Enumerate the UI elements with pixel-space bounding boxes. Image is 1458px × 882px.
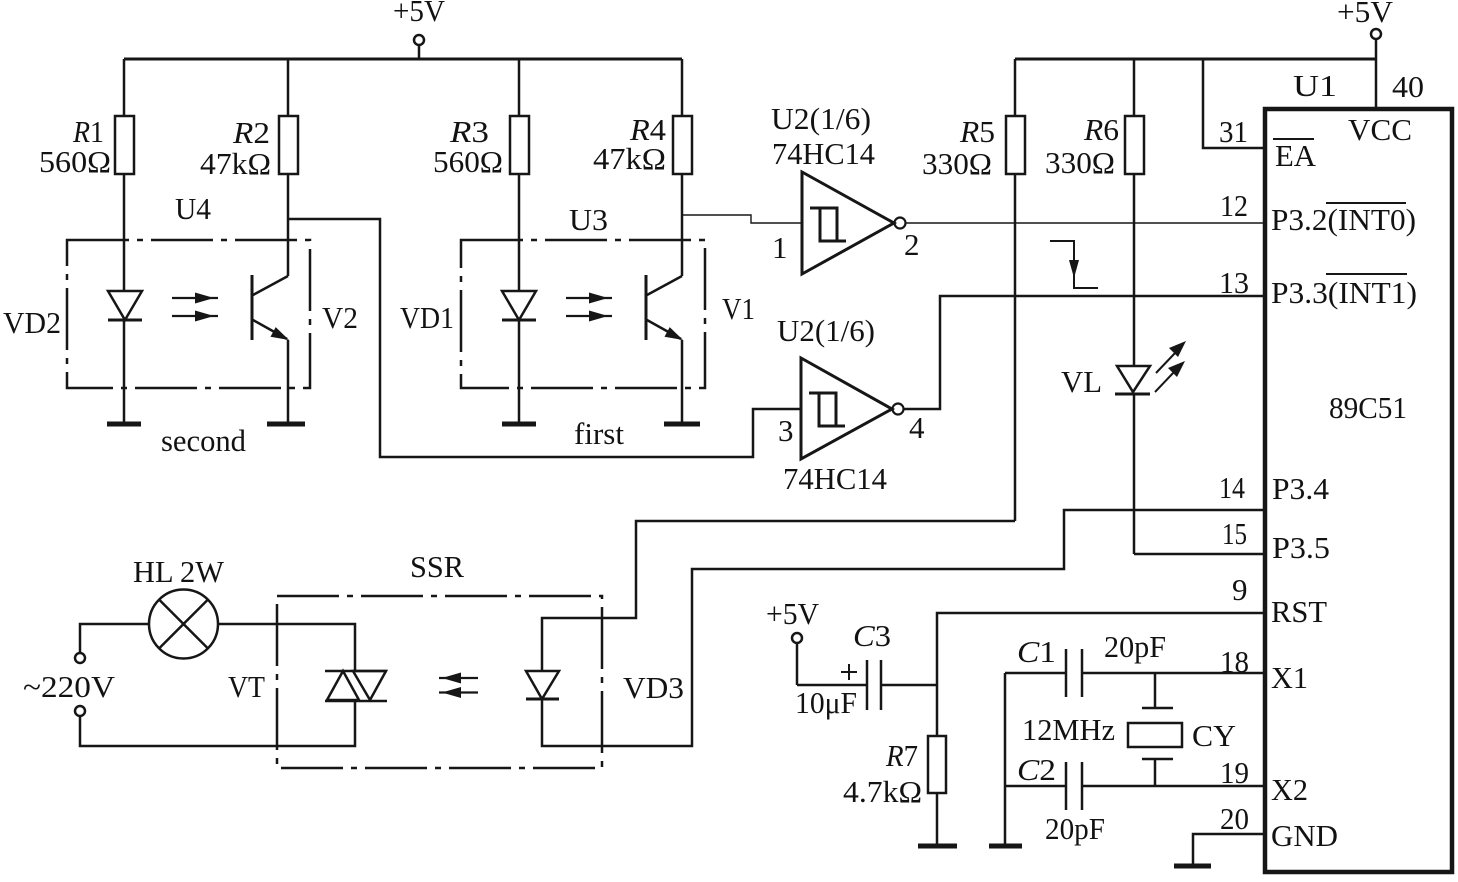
wire source to lamp <box>80 624 149 653</box>
svg-text:U2(1/6): U2(1/6) <box>771 101 871 136</box>
wire left +5V rail <box>124 58 682 61</box>
inverter U2a 74HC14 <box>771 101 906 274</box>
node +5V (left supply terminal) <box>393 0 446 59</box>
photodiode VD3 (inside SSR) <box>526 670 684 705</box>
triac VT (inside SSR) <box>228 669 387 704</box>
svg-text:VD1: VD1 <box>400 300 454 335</box>
svg-text:CY: CY <box>1192 718 1236 753</box>
wire R5 bottom to VD3 anode <box>542 521 1015 671</box>
resistor R7 4.7kohm <box>843 736 946 846</box>
wire R6/VL to P3.5 pin 15 <box>1134 553 1263 556</box>
svg-text:560Ω: 560Ω <box>39 144 111 179</box>
svg-text:U2(1/6): U2(1/6) <box>777 313 875 348</box>
ground (below C1/C2) <box>989 844 1022 849</box>
svg-text:VD3: VD3 <box>623 670 684 705</box>
wire U4 collector to inverter U2b input <box>288 219 801 457</box>
capacitor C2 20pF <box>1005 752 1263 846</box>
svg-text:330Ω: 330Ω <box>922 146 992 181</box>
wire triac to source bottom <box>80 701 355 746</box>
ground (below R7) <box>918 844 957 849</box>
svg-text:15: 15 <box>1222 516 1247 551</box>
svg-text:330Ω: 330Ω <box>1045 145 1115 180</box>
svg-text:RST: RST <box>1271 594 1327 629</box>
svg-text:U4: U4 <box>175 191 211 226</box>
svg-text:+5V: +5V <box>766 596 820 631</box>
falling edge trigger symbol <box>1050 241 1098 288</box>
capacitor C1 20pF <box>1005 629 1263 697</box>
wire EA to +5V rail <box>1203 59 1263 148</box>
svg-text:C3: C3 <box>853 618 891 653</box>
svg-text:89C51: 89C51 <box>1329 390 1407 425</box>
ground (below VD2) <box>107 422 141 427</box>
svg-text:+5V: +5V <box>393 0 446 28</box>
svg-text:74HC14: 74HC14 <box>772 136 875 171</box>
svg-text:P3.3(INT1): P3.3(INT1) <box>1271 275 1417 310</box>
svg-text:R2: R2 <box>232 115 270 150</box>
LED VD1 (inside U3) <box>400 291 536 423</box>
capacitor C3 10uF electrolytic <box>795 618 937 720</box>
svg-text:31: 31 <box>1219 114 1248 149</box>
phototransistor V2 (inside U4) <box>252 275 358 423</box>
svg-text:20pF: 20pF <box>1045 811 1105 846</box>
svg-text:47kΩ: 47kΩ <box>200 146 271 181</box>
MCU U1 89C51 <box>1265 68 1452 872</box>
wire inverter U2b output to P3.3 <box>904 296 1263 409</box>
svg-text:X2: X2 <box>1271 772 1308 807</box>
wire inverter U2a output to P3.2 <box>906 222 1263 224</box>
svg-text:second: second <box>161 423 246 458</box>
svg-text:10μF: 10μF <box>795 685 857 720</box>
svg-text:~220V: ~220V <box>23 669 116 704</box>
svg-text:X1: X1 <box>1271 660 1308 695</box>
crystal CY 12MHz <box>1022 673 1236 786</box>
ground (below GND pin) <box>1174 864 1211 869</box>
wire P3.4 to VD3 cathode <box>542 510 1263 746</box>
light coupling arrows U3 <box>566 293 612 322</box>
svg-text:18: 18 <box>1220 644 1249 679</box>
resistor R2 47kohm <box>200 59 298 276</box>
svg-text:U1: U1 <box>1293 68 1337 103</box>
svg-text:+5V: +5V <box>1337 0 1394 29</box>
ground (below V1 emitter) <box>664 422 700 427</box>
svg-text:EA: EA <box>1275 138 1317 173</box>
LED VD2 (inside U4) <box>3 291 142 423</box>
wire U3 collector to inverter U2a input <box>682 215 802 223</box>
svg-text:4: 4 <box>909 410 925 445</box>
svg-text:VCC: VCC <box>1348 112 1412 147</box>
phototransistor V1 (inside U3) <box>646 275 755 423</box>
svg-text:47kΩ: 47kΩ <box>593 141 666 176</box>
svg-text:14: 14 <box>1219 470 1245 505</box>
svg-text:VT: VT <box>228 669 265 704</box>
node +5V (C3 supply terminal) <box>766 596 820 685</box>
svg-text:9: 9 <box>1232 572 1248 607</box>
svg-text:SSR: SSR <box>410 549 464 584</box>
svg-text:20pF: 20pF <box>1104 629 1166 664</box>
svg-text:VL: VL <box>1061 364 1102 399</box>
svg-text:first: first <box>574 416 624 451</box>
SSR box <box>277 549 602 768</box>
svg-text:U3: U3 <box>569 202 608 237</box>
light coupling arrows U4 <box>172 293 218 322</box>
wire RST net <box>937 613 1263 736</box>
svg-text:R7: R7 <box>885 738 918 773</box>
svg-text:4.7kΩ: 4.7kΩ <box>843 774 922 809</box>
svg-text:VD2: VD2 <box>3 305 61 340</box>
svg-text:P3.4: P3.4 <box>1272 471 1329 506</box>
optocoupler U3 box <box>461 202 705 388</box>
wire C1/C2 ground leg <box>1004 673 1007 844</box>
svg-text:12: 12 <box>1220 188 1248 223</box>
svg-text:HL 2W: HL 2W <box>133 554 225 589</box>
svg-text:V1: V1 <box>722 291 755 326</box>
svg-text:560Ω: 560Ω <box>433 144 503 179</box>
light coupling arrows SSR (pointing left) <box>439 673 478 699</box>
svg-text:P3.5: P3.5 <box>1272 530 1330 565</box>
ground (below VD1) <box>502 422 536 427</box>
svg-text:V2: V2 <box>322 300 358 335</box>
svg-text:13: 13 <box>1219 265 1249 300</box>
source ~220V terminals <box>23 653 116 716</box>
svg-text:74HC14: 74HC14 <box>783 461 887 496</box>
svg-text:C2: C2 <box>1017 752 1056 787</box>
resistor R6 330ohm <box>1045 59 1144 366</box>
inverter U2b 74HC14 <box>777 313 904 496</box>
resistor R1 560ohm <box>39 59 134 292</box>
wire right +5V rail <box>1015 58 1376 61</box>
svg-text:2: 2 <box>904 227 920 262</box>
ground (below V2 emitter) <box>267 422 305 427</box>
lamp HL 2W <box>133 554 225 659</box>
svg-text:3: 3 <box>778 413 794 448</box>
resistor R4 47kohm <box>593 59 692 276</box>
svg-text:GND: GND <box>1271 818 1338 853</box>
svg-text:R6: R6 <box>1083 112 1119 147</box>
svg-text:1: 1 <box>772 230 788 265</box>
svg-text:12MHz: 12MHz <box>1022 712 1115 747</box>
svg-text:20: 20 <box>1220 801 1249 836</box>
node +5V (right supply terminal) <box>1337 0 1394 107</box>
wire GND pin to ground <box>1193 834 1263 866</box>
svg-text:P3.2(INT0): P3.2(INT0) <box>1271 202 1416 237</box>
svg-text:19: 19 <box>1220 755 1249 790</box>
resistor R5 330ohm <box>922 59 1025 521</box>
LED VL <box>1061 341 1186 554</box>
optocoupler U4 box <box>67 191 310 388</box>
svg-text:40: 40 <box>1392 69 1424 104</box>
wire lamp to triac VT <box>218 624 355 671</box>
resistor R3 560ohm <box>433 59 529 292</box>
svg-text:C1: C1 <box>1017 634 1056 669</box>
svg-text:R5: R5 <box>959 114 995 149</box>
